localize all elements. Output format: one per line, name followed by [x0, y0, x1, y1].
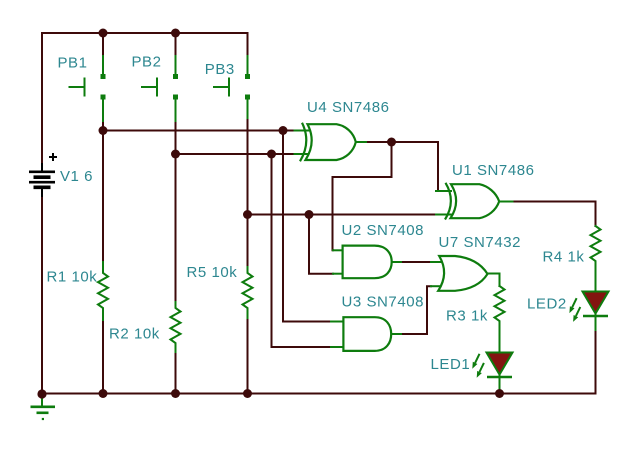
svg-text:R2 10k: R2 10k: [109, 326, 160, 343]
svg-text:R3 1k: R3 1k: [446, 308, 488, 325]
svg-text:U7 SN7432: U7 SN7432: [439, 234, 522, 251]
svg-text:LED1: LED1: [431, 356, 471, 373]
svg-text:U3 SN7408: U3 SN7408: [342, 294, 425, 311]
svg-text:U4 SN7486: U4 SN7486: [307, 99, 390, 116]
svg-text:R5 10k: R5 10k: [187, 264, 238, 281]
svg-text:U1 SN7486: U1 SN7486: [452, 162, 535, 179]
svg-text:PB3: PB3: [205, 61, 235, 78]
svg-text:PB2: PB2: [132, 54, 162, 71]
svg-text:V1 6: V1 6: [60, 168, 93, 185]
svg-text:R4 1k: R4 1k: [543, 249, 585, 266]
svg-text:LED2: LED2: [527, 296, 567, 313]
svg-text:PB1: PB1: [58, 55, 88, 72]
svg-text:R1 10k: R1 10k: [47, 269, 98, 286]
svg-text:U2 SN7408: U2 SN7408: [342, 222, 425, 239]
